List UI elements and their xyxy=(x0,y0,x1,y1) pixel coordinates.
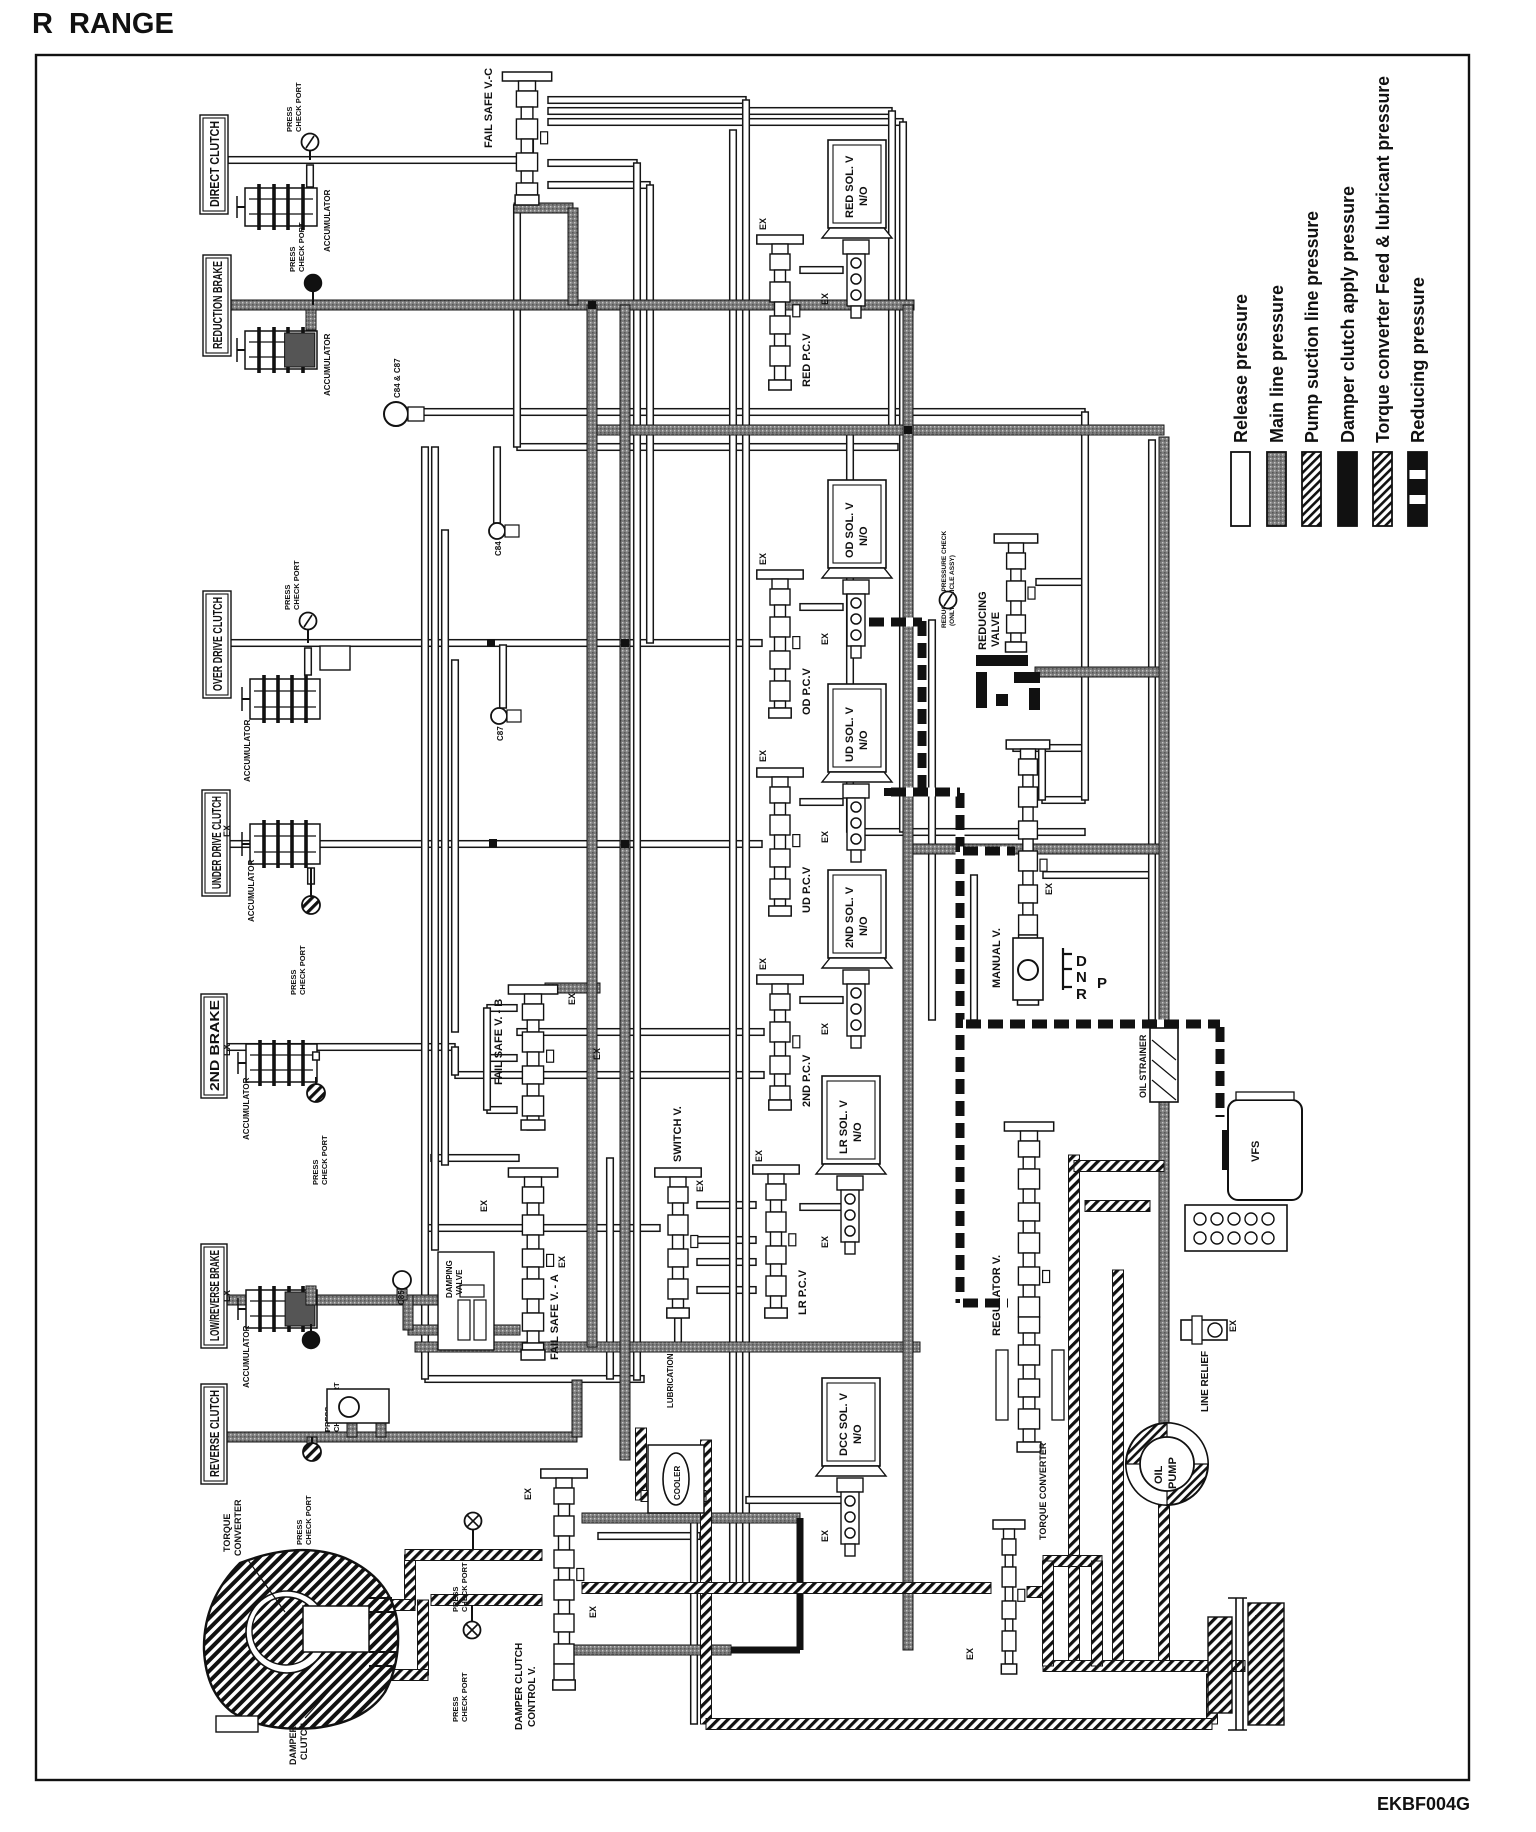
svg-text:Torque converter Feed & lubric: Torque converter Feed & lubricant pressu… xyxy=(1372,76,1393,443)
svg-text:Main line pressure: Main line pressure xyxy=(1266,285,1287,443)
connector stub y=270 xyxy=(800,267,843,274)
pipe release-pressure vertical x=678 xyxy=(675,1318,682,1347)
torque converter blob xyxy=(204,1550,398,1729)
legend symbol reducing pressure xyxy=(1408,452,1427,526)
svg-text:EX: EX xyxy=(479,1200,489,1212)
pipe release-pressure vertical x=932 xyxy=(929,620,936,1020)
svg-text:EX: EX xyxy=(758,958,768,970)
svg-text:MANUAL V.: MANUAL V. xyxy=(991,928,1003,988)
solenoid body UD SOL. V xyxy=(843,784,869,798)
port C87 xyxy=(491,708,507,724)
VFS body xyxy=(1185,1205,1287,1251)
oil strainer xyxy=(1150,1028,1178,1102)
accumulator xyxy=(246,1044,317,1082)
svg-text:EX: EX xyxy=(567,993,577,1005)
solenoid body LR SOL. V xyxy=(837,1176,863,1190)
pipe main-line horizontal y=208 xyxy=(514,203,573,213)
svg-text:DIRECT CLUTCH: DIRECT CLUTCH xyxy=(207,121,222,207)
accumulator feed stub xyxy=(307,1437,317,1445)
svg-text:EX: EX xyxy=(758,750,768,762)
accumulator feed stub xyxy=(308,868,315,884)
pipe release-pressure vertical x=487 xyxy=(484,1008,491,1110)
svg-text:C84 & C87: C84 & C87 xyxy=(393,358,402,398)
pipe hatched horizontal y=1592 xyxy=(1027,1587,1048,1598)
junction node xyxy=(884,788,892,796)
pipe hatched horizontal y=1496 xyxy=(641,1491,706,1502)
svg-text:CHECK PORT: CHECK PORT xyxy=(297,222,306,272)
svg-text:FAIL SAFE V. - A: FAIL SAFE V. - A xyxy=(549,1274,561,1360)
pipe release-pressure vertical x=650 xyxy=(647,185,654,643)
solenoid box RED SOL. V xyxy=(828,140,886,228)
pipe hatched horizontal y=1206 xyxy=(1085,1201,1150,1212)
junction node xyxy=(489,839,497,847)
pipe hatched horizontal y=1675 xyxy=(370,1670,428,1681)
pipe main-line horizontal y=1650 xyxy=(565,1645,731,1655)
press check port xyxy=(465,1513,482,1530)
svg-text:OIL: OIL xyxy=(1153,1465,1165,1484)
svg-text:Pump suction line pressure: Pump suction line pressure xyxy=(1301,211,1322,443)
pipe release-pressure horizontal y=1158 xyxy=(431,1155,519,1162)
port C85 xyxy=(393,1271,411,1289)
svg-text:DCC SOL. V: DCC SOL. V xyxy=(838,1392,850,1456)
pipe reducing horizontal y=792 xyxy=(888,788,960,797)
connector stub DCC xyxy=(746,1497,843,1504)
cooler xyxy=(648,1445,704,1513)
pipe main-line horizontal y=1330 xyxy=(408,1325,520,1335)
pipe hatched horizontal y=1605 xyxy=(370,1600,415,1611)
line relief valve xyxy=(1181,1320,1227,1340)
svg-text:N/O: N/O xyxy=(852,1424,864,1444)
svg-text:R: R xyxy=(1076,986,1087,1003)
reducing valve port blocks xyxy=(976,655,1028,666)
svg-text:CHECK PORT: CHECK PORT xyxy=(460,1672,469,1722)
valve UD P.C.V xyxy=(757,768,803,777)
valve FAIL SAFE V.-B xyxy=(508,985,557,994)
overdrive line fitting xyxy=(320,646,350,670)
pipe reducing horizontal y=622 xyxy=(866,618,922,627)
svg-text:PRESS: PRESS xyxy=(311,1160,320,1185)
pipe hatched horizontal y=1555 xyxy=(405,1550,542,1561)
legend symbol torque converter feed pressure xyxy=(1373,452,1392,526)
svg-text:EX: EX xyxy=(820,1530,830,1542)
pipe release-pressure horizontal y=160 xyxy=(228,157,530,164)
pipe main-line horizontal y=1300 xyxy=(225,1295,440,1305)
svg-text:FAIL SAFE V. - B: FAIL SAFE V. - B xyxy=(493,999,505,1085)
pipe release-pressure vertical x=733 xyxy=(730,130,737,1590)
pipe main-line vertical x=592 xyxy=(587,305,597,1347)
svg-text:VALVE: VALVE xyxy=(455,1269,464,1295)
pipe reducing horizontal y=851 xyxy=(960,847,1015,856)
junction node xyxy=(904,426,912,434)
junction node xyxy=(621,840,629,848)
svg-text:CHECK PORT: CHECK PORT xyxy=(292,560,301,610)
pipe main-line horizontal y=672 xyxy=(1035,667,1164,677)
pipe hatched horizontal y=1666 xyxy=(1043,1661,1245,1672)
label box UNDER DRIVE CLUTCH xyxy=(202,790,230,896)
svg-text:DAMPING: DAMPING xyxy=(445,1260,454,1298)
solenoid body 2ND SOL. V xyxy=(843,970,869,984)
svg-text:EX: EX xyxy=(820,1023,830,1035)
pipe release-pressure horizontal y=1240 xyxy=(697,1237,756,1244)
accumulator xyxy=(250,824,320,864)
pipe main-line vertical x=577 xyxy=(572,1380,582,1437)
svg-text:LOW/REVERSE BRAKE: LOW/REVERSE BRAKE xyxy=(207,1250,222,1341)
svg-text:C84: C84 xyxy=(494,541,503,556)
svg-text:Release pressure: Release pressure xyxy=(1230,294,1251,443)
pipe release-pressure horizontal y=111 xyxy=(548,108,892,115)
pipe main-line vertical x=381 xyxy=(376,1423,386,1437)
oil pump xyxy=(1126,1423,1208,1505)
pipe release-pressure horizontal y=832 xyxy=(850,829,1085,836)
svg-text:COOLER: COOLER xyxy=(673,1466,682,1500)
pipe release-pressure vertical x=425 xyxy=(422,447,429,1379)
svg-text:PRESS: PRESS xyxy=(295,1520,304,1545)
accumulator feed stub xyxy=(307,165,314,187)
pipe release-pressure horizontal y=1110 xyxy=(487,1107,517,1114)
svg-text:CONVERTER: CONVERTER xyxy=(233,1499,243,1556)
pipe release-pressure horizontal y=1262 xyxy=(697,1259,756,1266)
connector stub y=607 xyxy=(800,604,843,611)
svg-text:REGULATOR V.: REGULATOR V. xyxy=(991,1255,1003,1336)
press check port xyxy=(464,1622,481,1639)
solenoid box OD SOL. V xyxy=(828,480,886,568)
pipe release-pressure vertical x=1152 xyxy=(1149,440,1156,1020)
reducing check port xyxy=(940,592,957,609)
pipe main-line horizontal y=1347 xyxy=(415,1342,920,1352)
svg-text:DAMPER CLUTCH: DAMPER CLUTCH xyxy=(514,1643,525,1730)
accumulator feed stub xyxy=(306,310,316,330)
svg-text:N/O: N/O xyxy=(858,730,870,750)
connector stub y=802 xyxy=(800,799,843,806)
pipe release-pressure vertical x=974 xyxy=(971,875,978,1020)
svg-text:N/O: N/O xyxy=(858,186,870,206)
svg-text:(ONLY VEHICLE ASSY): (ONLY VEHICLE ASSY) xyxy=(949,555,956,626)
svg-text:EX: EX xyxy=(523,1488,533,1500)
legend symbol pump suction line pressure xyxy=(1302,452,1321,526)
valve LR P.C.V xyxy=(753,1165,799,1174)
pipe hatched horizontal y=1600 xyxy=(431,1595,542,1606)
pipe release-pressure horizontal y=1536 xyxy=(598,1533,700,1540)
pipe hatched horizontal y=1724 xyxy=(706,1719,1212,1730)
pipe release-pressure horizontal y=1379 xyxy=(425,1376,644,1383)
pipe hatched vertical x=1212 xyxy=(1207,1674,1218,1724)
oil pan strainer xyxy=(1208,1617,1232,1713)
svg-text:UD SOL. V: UD SOL. V xyxy=(844,706,856,762)
pipe release-pressure vertical x=903 xyxy=(900,122,907,832)
svg-text:ACCUMULATOR: ACCUMULATOR xyxy=(243,719,252,782)
svg-text:EX: EX xyxy=(695,1180,705,1192)
solenoid box 2ND SOL. V xyxy=(828,870,886,958)
svg-text:P: P xyxy=(1097,975,1107,992)
pipe hatched vertical x=1164 xyxy=(1159,1503,1170,1666)
pipe main-line vertical x=402 xyxy=(397,1289,407,1300)
press check port xyxy=(302,134,319,151)
pipe release-pressure horizontal y=844 xyxy=(228,841,762,848)
svg-text:REDUCING PRESSURE CHECK: REDUCING PRESSURE CHECK xyxy=(941,531,948,628)
pipe release-pressure horizontal y=800 xyxy=(1042,797,1085,804)
pipe release-pressure vertical x=503 xyxy=(500,645,507,708)
pipe release-pressure horizontal y=1008 xyxy=(487,1005,517,1012)
svg-text:EX: EX xyxy=(557,1256,567,1268)
accumulator xyxy=(245,331,317,369)
damping valve box xyxy=(438,1252,494,1350)
pipe hatched vertical x=706 xyxy=(701,1440,712,1724)
svg-text:CHECK PORT: CHECK PORT xyxy=(304,1495,313,1545)
svg-text:EX: EX xyxy=(820,831,830,843)
svg-text:2ND SOL. V: 2ND SOL. V xyxy=(844,886,856,948)
solenoid body OD SOL. V xyxy=(843,580,869,594)
valve 2ND P.C.V xyxy=(757,975,803,984)
svg-text:EX: EX xyxy=(758,218,768,230)
pipe hatched vertical x=410 xyxy=(405,1555,416,1605)
legend symbol damper clutch apply pressure xyxy=(1338,452,1357,526)
press check port xyxy=(303,1332,320,1349)
reverse clutch ball fitting xyxy=(327,1389,389,1423)
svg-text:R RANGE: R RANGE xyxy=(32,8,174,40)
pipe release-pressure horizontal y=1047 xyxy=(225,1044,455,1051)
svg-text:UNDER DRIVE CLUTCH: UNDER DRIVE CLUTCH xyxy=(209,796,224,889)
connector stub y=1000 xyxy=(800,997,843,1004)
pipe release-pressure horizontal y=1228 xyxy=(425,1225,660,1232)
pipe hatched vertical x=423 xyxy=(418,1600,429,1675)
svg-text:REVERSE CLUTCH: REVERSE CLUTCH xyxy=(207,1390,222,1477)
legend symbol release pressure xyxy=(1231,452,1250,526)
svg-text:ACCUMULATOR: ACCUMULATOR xyxy=(323,333,332,396)
solenoid body DCC SOL. V xyxy=(837,1478,863,1492)
svg-text:PRESS: PRESS xyxy=(283,585,292,610)
connector stub y=1207 xyxy=(800,1204,843,1211)
solenoid body RED SOL. V xyxy=(843,240,869,254)
svg-text:OIL STRAINER: OIL STRAINER xyxy=(1138,1034,1148,1098)
svg-text:REDUCING: REDUCING xyxy=(977,591,989,650)
pipe main-line horizontal y=988 xyxy=(545,983,600,993)
shift gate RNDP xyxy=(1063,948,1072,990)
svg-text:PRESS: PRESS xyxy=(285,107,294,132)
svg-text:ACCUMULATOR: ACCUMULATOR xyxy=(323,189,332,252)
svg-text:Reducing pressure: Reducing pressure xyxy=(1407,277,1428,443)
pipe reducing vertical x=960 xyxy=(956,790,965,1303)
junction node xyxy=(621,639,629,647)
label box REDUCTION BRAKE xyxy=(203,255,231,356)
svg-text:N/O: N/O xyxy=(858,916,870,936)
svg-text:ACCUMULATOR: ACCUMULATOR xyxy=(242,1325,251,1388)
accumulator feed stub xyxy=(313,1052,320,1060)
pipe release-pressure vertical x=435 xyxy=(432,447,439,1250)
pipe hatched vertical x=1074 xyxy=(1069,1155,1080,1666)
pipe main-line vertical x=352 xyxy=(347,1423,357,1437)
label box REVERSE CLUTCH xyxy=(201,1384,227,1484)
press check port xyxy=(307,1084,325,1102)
svg-text:CHECK PORT: CHECK PORT xyxy=(320,1135,329,1185)
valve MANUAL V. xyxy=(1006,740,1049,749)
pipe release-pressure horizontal y=412 xyxy=(408,409,1085,416)
solenoid box DCC SOL. V xyxy=(822,1378,880,1466)
press check port xyxy=(303,1443,321,1461)
pipe release-pressure horizontal y=100 xyxy=(548,97,746,104)
pipe release-pressure vertical x=850 xyxy=(847,430,854,832)
pipe hatched vertical x=641 xyxy=(636,1428,647,1500)
junction node xyxy=(487,639,495,647)
pipe hatched horizontal y=1588 xyxy=(582,1583,991,1594)
pipe release-pressure horizontal y=1058 xyxy=(487,1055,517,1062)
svg-text:RED SOL. V: RED SOL. V xyxy=(844,155,856,218)
pipe release-pressure vertical x=610 xyxy=(607,1158,614,1379)
pipe damper-apply vertical x=800 xyxy=(797,1518,804,1650)
pipe release-pressure horizontal y=1075 xyxy=(455,1072,764,1079)
press check port xyxy=(302,896,320,914)
svg-text:OD SOL. V: OD SOL. V xyxy=(844,502,856,558)
pipe release-pressure vertical x=1085 xyxy=(1082,412,1089,800)
pipe reducing vertical x=922 xyxy=(918,618,927,792)
svg-text:ACCUMULATOR: ACCUMULATOR xyxy=(242,1077,251,1140)
pipe main-line horizontal y=305 xyxy=(228,300,914,310)
svg-text:LR SOL. V: LR SOL. V xyxy=(838,1100,850,1154)
svg-text:CLUTCH: CLUTCH xyxy=(299,1723,309,1760)
pipe hatched vertical x=1118 xyxy=(1113,1270,1124,1666)
svg-text:PRESS: PRESS xyxy=(288,247,297,272)
svg-text:PRESS: PRESS xyxy=(451,1697,460,1722)
svg-text:EX: EX xyxy=(222,1290,232,1302)
valve DAMPER CLUTCH CONTROL V. xyxy=(541,1469,587,1478)
valve SWITCH V. xyxy=(655,1168,701,1177)
pipe main-line horizontal y=849 xyxy=(908,844,1164,854)
svg-text:EX: EX xyxy=(758,553,768,565)
pipe release-pressure vertical x=517 xyxy=(514,205,521,447)
svg-text:VALVE: VALVE xyxy=(990,612,1002,647)
pipe damper-apply horizontal y=1650 xyxy=(731,1647,800,1654)
valve RED P.C.V xyxy=(757,235,803,244)
pipe release-pressure vertical x=892 xyxy=(889,111,896,430)
svg-text:EX: EX xyxy=(592,1048,602,1060)
VFS solenoid xyxy=(1228,1100,1302,1200)
pipe main-line horizontal y=430 xyxy=(592,425,1164,435)
pipe release-pressure horizontal y=875 xyxy=(1043,872,1152,879)
pipe reducing horizontal y=1303 xyxy=(960,1299,1008,1308)
svg-text:EX: EX xyxy=(820,1236,830,1248)
pipe release-pressure horizontal y=1032 xyxy=(517,1029,764,1036)
svg-text:LR P.C.V: LR P.C.V xyxy=(797,1269,809,1315)
svg-text:LINE RELIEF: LINE RELIEF xyxy=(1200,1351,1211,1412)
svg-text:OVER DRIVE CLUTCH: OVER DRIVE CLUTCH xyxy=(210,597,225,691)
pipe release-pressure vertical x=694 xyxy=(691,1496,698,1724)
svg-text:EX: EX xyxy=(1044,883,1054,895)
pipe reducing vertical x=1220 xyxy=(1216,1024,1225,1117)
pipe release-pressure horizontal y=185 xyxy=(548,182,650,189)
pipe main-line horizontal y=1437 xyxy=(225,1432,577,1442)
svg-text:REDUCTION BRAKE: REDUCTION BRAKE xyxy=(210,261,225,349)
svg-text:N/O: N/O xyxy=(852,1122,864,1142)
svg-text:N/O: N/O xyxy=(858,526,870,546)
svg-text:EX: EX xyxy=(754,1150,764,1162)
pipe release-pressure vertical x=445 xyxy=(442,530,449,1165)
label box DIRECT CLUTCH xyxy=(200,115,228,214)
svg-text:CHECK PORT: CHECK PORT xyxy=(298,945,307,995)
accumulator xyxy=(245,188,317,226)
svg-text:PUMP: PUMP xyxy=(1167,1457,1179,1489)
pipe main-line vertical x=573 xyxy=(568,208,578,305)
svg-text:TORQUE CONVERTER: TORQUE CONVERTER xyxy=(1038,1442,1048,1540)
svg-text:ACCUMULATOR: ACCUMULATOR xyxy=(247,859,256,922)
pipe release-pressure vertical x=530 xyxy=(527,140,534,162)
valve REDUCING VALVE xyxy=(994,534,1037,543)
pipe release-pressure horizontal y=748 xyxy=(1013,745,1082,752)
label box 2ND BRAKE xyxy=(201,994,227,1098)
pipe release-pressure horizontal y=582 xyxy=(1036,579,1085,586)
label box LOW/REVERSE BRAKE xyxy=(201,1244,227,1348)
valve FAIL SAFE V.-A xyxy=(508,1168,557,1177)
pipe release-pressure horizontal y=643 xyxy=(228,640,762,647)
pipe release-pressure vertical x=455 xyxy=(452,660,459,1032)
svg-text:EX: EX xyxy=(222,1044,232,1056)
pipe reducing horizontal y=1024 xyxy=(963,1020,1220,1029)
svg-text:D: D xyxy=(1076,953,1087,970)
svg-text:Damper clutch apply pressure: Damper clutch apply pressure xyxy=(1337,186,1358,443)
svg-text:EX: EX xyxy=(965,1648,975,1660)
valve OD P.C.V xyxy=(757,570,803,579)
pipe release-pressure horizontal y=122 xyxy=(548,119,903,126)
converter pressure valve xyxy=(993,1520,1025,1529)
pipe release-pressure vertical x=1042 xyxy=(1039,748,1046,800)
svg-text:C87: C87 xyxy=(496,726,505,741)
svg-text:CHECK PORT: CHECK PORT xyxy=(294,82,303,132)
svg-text:C85: C85 xyxy=(397,1290,406,1305)
accumulator feed stub xyxy=(306,1286,316,1305)
junction node xyxy=(588,301,596,309)
svg-text:EX: EX xyxy=(1228,1320,1238,1332)
svg-text:EKBF004G: EKBF004G xyxy=(1377,1794,1470,1814)
port C84 xyxy=(489,523,505,539)
legend symbol main line pressure xyxy=(1267,452,1286,526)
pipe main-line vertical x=908 xyxy=(903,305,913,1650)
converter feed loop box xyxy=(1043,1556,1102,1567)
solenoid box LR SOL. V xyxy=(822,1076,880,1164)
accumulator xyxy=(246,1290,317,1328)
svg-text:DAMPER: DAMPER xyxy=(288,1725,298,1765)
pipe main-line horizontal y=1518 xyxy=(582,1513,800,1523)
label box OVER DRIVE CLUTCH xyxy=(203,591,231,698)
svg-text:VFS: VFS xyxy=(1250,1141,1262,1162)
svg-text:SWITCH V.: SWITCH V. xyxy=(672,1106,684,1162)
pipe release-pressure horizontal y=447 xyxy=(517,444,898,451)
svg-text:EX: EX xyxy=(588,1606,598,1618)
port C84 &amp; C87 xyxy=(384,402,408,426)
svg-text:2ND BRAKE: 2ND BRAKE xyxy=(207,1000,222,1091)
pipe main-line vertical x=625 xyxy=(620,305,630,1460)
svg-text:CHECK PORT: CHECK PORT xyxy=(460,1562,469,1612)
press check port xyxy=(305,275,322,292)
svg-text:EX: EX xyxy=(820,293,830,305)
pipe release-pressure vertical x=746 xyxy=(743,100,750,1590)
svg-text:RED P.C.V: RED P.C.V xyxy=(801,333,813,387)
pipe release-pressure horizontal y=1290 xyxy=(697,1287,756,1294)
svg-text:LUBRICATION: LUBRICATION xyxy=(666,1353,675,1408)
pipe release-pressure vertical x=637 xyxy=(634,163,641,1380)
svg-text:EX: EX xyxy=(820,633,830,645)
pipe release-pressure vertical x=497 xyxy=(494,447,501,523)
pipe hatched horizontal y=1166 xyxy=(1074,1161,1164,1172)
pipe release-pressure horizontal y=163 xyxy=(548,160,637,167)
svg-text:N: N xyxy=(1076,969,1087,986)
svg-text:2ND P.C.V: 2ND P.C.V xyxy=(801,1054,813,1107)
svg-text:UD P.C.V: UD P.C.V xyxy=(801,866,813,913)
valve REGULATOR V. xyxy=(1004,1122,1053,1131)
pipe release-pressure vertical x=455 xyxy=(452,1047,459,1075)
svg-text:CONTROL V.: CONTROL V. xyxy=(527,1666,538,1727)
pipe main-line vertical x=408 xyxy=(403,1295,413,1330)
valve FAIL SAFE V.-C xyxy=(502,72,551,81)
pipe release-pressure horizontal y=1205 xyxy=(697,1202,756,1209)
accumulator xyxy=(250,679,320,719)
